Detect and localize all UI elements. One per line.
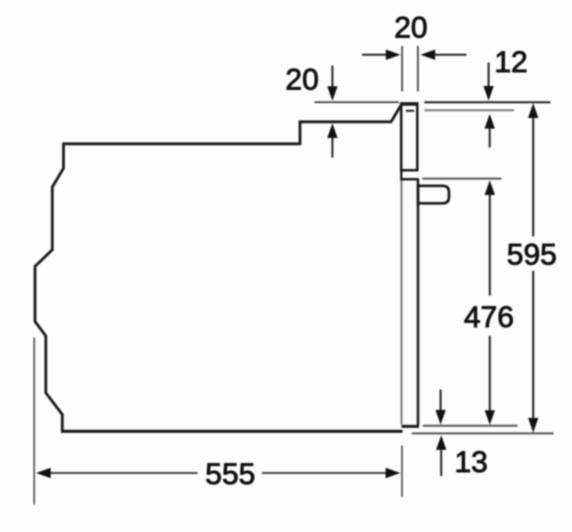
- door bottom edge: [402, 425, 420, 428]
- oven front face (gray vertical behind door): [401, 111, 403, 425]
- dim 20 top: right arrow: [435, 54, 467, 56]
- door vent gap lower edge: [401, 178, 419, 181]
- svg-text:555: 555: [205, 458, 255, 491]
- oven body top line: [62, 142, 300, 145]
- oven body bottom line: [61, 430, 403, 433]
- svg-text:13: 13: [455, 446, 488, 479]
- dim 555: extension line right: [401, 446, 403, 498]
- dim 20 left: up arrow: [331, 138, 333, 158]
- svg-text:595: 595: [507, 238, 557, 271]
- dim 20 top: extension line left: [401, 46, 403, 92]
- front frame top reference line (12): [424, 109, 514, 111]
- dim 12: down arrow: [488, 63, 490, 87]
- dim 595: vertical line with arrows: [532, 118, 534, 237]
- door handle: [418, 186, 449, 204]
- dim 20 top: left arrow: [362, 54, 387, 56]
- dim 20 left: down arrow: [331, 66, 333, 87]
- oven body outline (left profile, top and bottom): [35, 144, 64, 431]
- door upper panel (control panel front): [401, 104, 417, 171]
- dim 555: right segment with arrow: [262, 472, 386, 474]
- dim 555: extension line left: [33, 338, 35, 505]
- door top cap thick edge: [401, 102, 419, 105]
- svg-text:476: 476: [464, 301, 514, 334]
- svg-text:12: 12: [494, 46, 527, 79]
- dim 13: down arrow: [440, 390, 442, 411]
- door front panel: [417, 179, 420, 425]
- handle top reference line (476 upper): [422, 178, 501, 180]
- door bottom reference line: [423, 425, 518, 427]
- worktop reference line right segment: [424, 101, 550, 103]
- appliance bottom reference line: [412, 432, 554, 434]
- door vent gap left connector: [400, 169, 402, 181]
- dim 555: left segment with arrow: [51, 472, 198, 474]
- door upper panel inner line: [406, 110, 414, 112]
- oven body top step: [300, 106, 401, 146]
- dim 20 top: extension line right: [417, 46, 419, 92]
- worktop reference line left segment: [315, 101, 399, 103]
- svg-text:20: 20: [394, 12, 427, 45]
- dim 13: up arrow: [440, 450, 442, 476]
- svg-text:20: 20: [285, 63, 318, 96]
- dim 476: vertical line with arrows: [489, 195, 491, 296]
- dim 12: up arrow: [489, 129, 491, 148]
